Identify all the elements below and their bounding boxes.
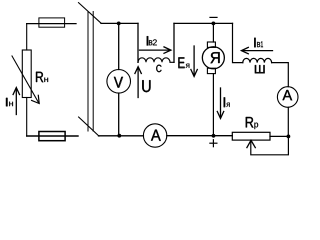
ammeter A1 circle (field circuit) [277,87,298,108]
coil Ш (shunt winding) [243,58,272,62]
node (armature top) [212,22,216,26]
wire (coil C up to top bus) [173,23,175,62]
node (V tap, top) [117,22,121,26]
wire (right corner down to shunt coil) [233,23,243,62]
resistor Rн variable arrow [12,56,39,103]
ammeter A2 circle (armature circuit) [143,124,166,147]
wire (top bus, left section) [101,22,138,24]
label Iв1 : в subscript [257,42,260,47]
wire (left vertical, bottom) [26,98,28,137]
label Rн : н subscript [44,78,48,82]
rheostat Rp body [232,132,270,140]
node (Rp right) [287,135,291,139]
label Iв1 : I [254,38,255,47]
current arrow Iн [15,89,17,115]
label Ш (shunt winding) [255,65,265,73]
fuse F1 body [39,18,65,27]
wire (left vertical, top) [26,24,28,50]
polarity minus [210,16,217,18]
fuse F2 body [39,132,65,141]
label Iн : I [6,98,8,106]
label Rр : R [246,117,254,127]
wire (top bus, right section) [174,22,233,24]
fuse F2 wire (bottom left) [27,135,78,137]
label Iн : н subscript [9,102,13,106]
armature brush (top) [207,42,215,47]
supply busbar line 2 [92,12,94,132]
voltage arrow U [137,68,139,98]
switch blade (bottom) [79,117,99,136]
wire (down to series coil C) [137,23,139,62]
label Iв2 : в subscript [149,40,152,45]
node (V tap, bottom) [117,134,121,138]
label Eя : E [178,57,184,68]
supply busbar line 1 [87,12,89,132]
armature letter Я [211,52,220,63]
label Iв2 : I [147,36,148,45]
resistor Rн body [22,50,31,98]
wire (armature bottom lead) [212,74,214,136]
Rp wiper arrow [247,140,255,147]
armature brush (bottom) [207,68,215,73]
wire (V branch upper) [118,23,120,69]
label С (series winding) [156,65,161,72]
label Iв1 : 1 subscript [261,41,263,47]
wire (bottom bus, left section) [99,135,144,137]
armature Я circle [202,47,224,69]
wire (Rp to right node) [270,135,288,137]
wire (V branch lower) [118,93,120,136]
label Iв2 : 2 subscript [153,39,157,45]
label U [142,80,150,92]
voltmeter V letter [114,77,123,88]
ammeter A1 letter [283,90,293,100]
current arrow Iв2 [140,49,170,51]
label Iя : я subscript [226,103,229,107]
ammeter A2 letter [151,130,161,141]
polarity plus [210,142,217,144]
voltmeter V circle [107,70,131,94]
wire (armature top lead) [212,23,214,42]
label Rн : R [36,72,43,82]
label Iя : I [224,97,225,107]
fuse F1 wire (top left) [27,23,76,25]
wire (bottom bus, right section) [167,135,233,137]
switch blade (top) [79,3,102,24]
wire (ammeter A1 down) [287,107,289,136]
coil C (series winding) [138,58,174,63]
node (armature bottom) [212,134,216,138]
current arrow Iя [220,88,222,117]
label Eя : я subscript [186,64,190,68]
wire (Rp wiper loop) [251,136,289,154]
current arrow Iв1 [243,50,272,52]
wire (shunt coil to ammeter A1) [272,63,289,87]
label Rр : р subscript [254,123,258,130]
emf arrow Eя [193,46,195,75]
